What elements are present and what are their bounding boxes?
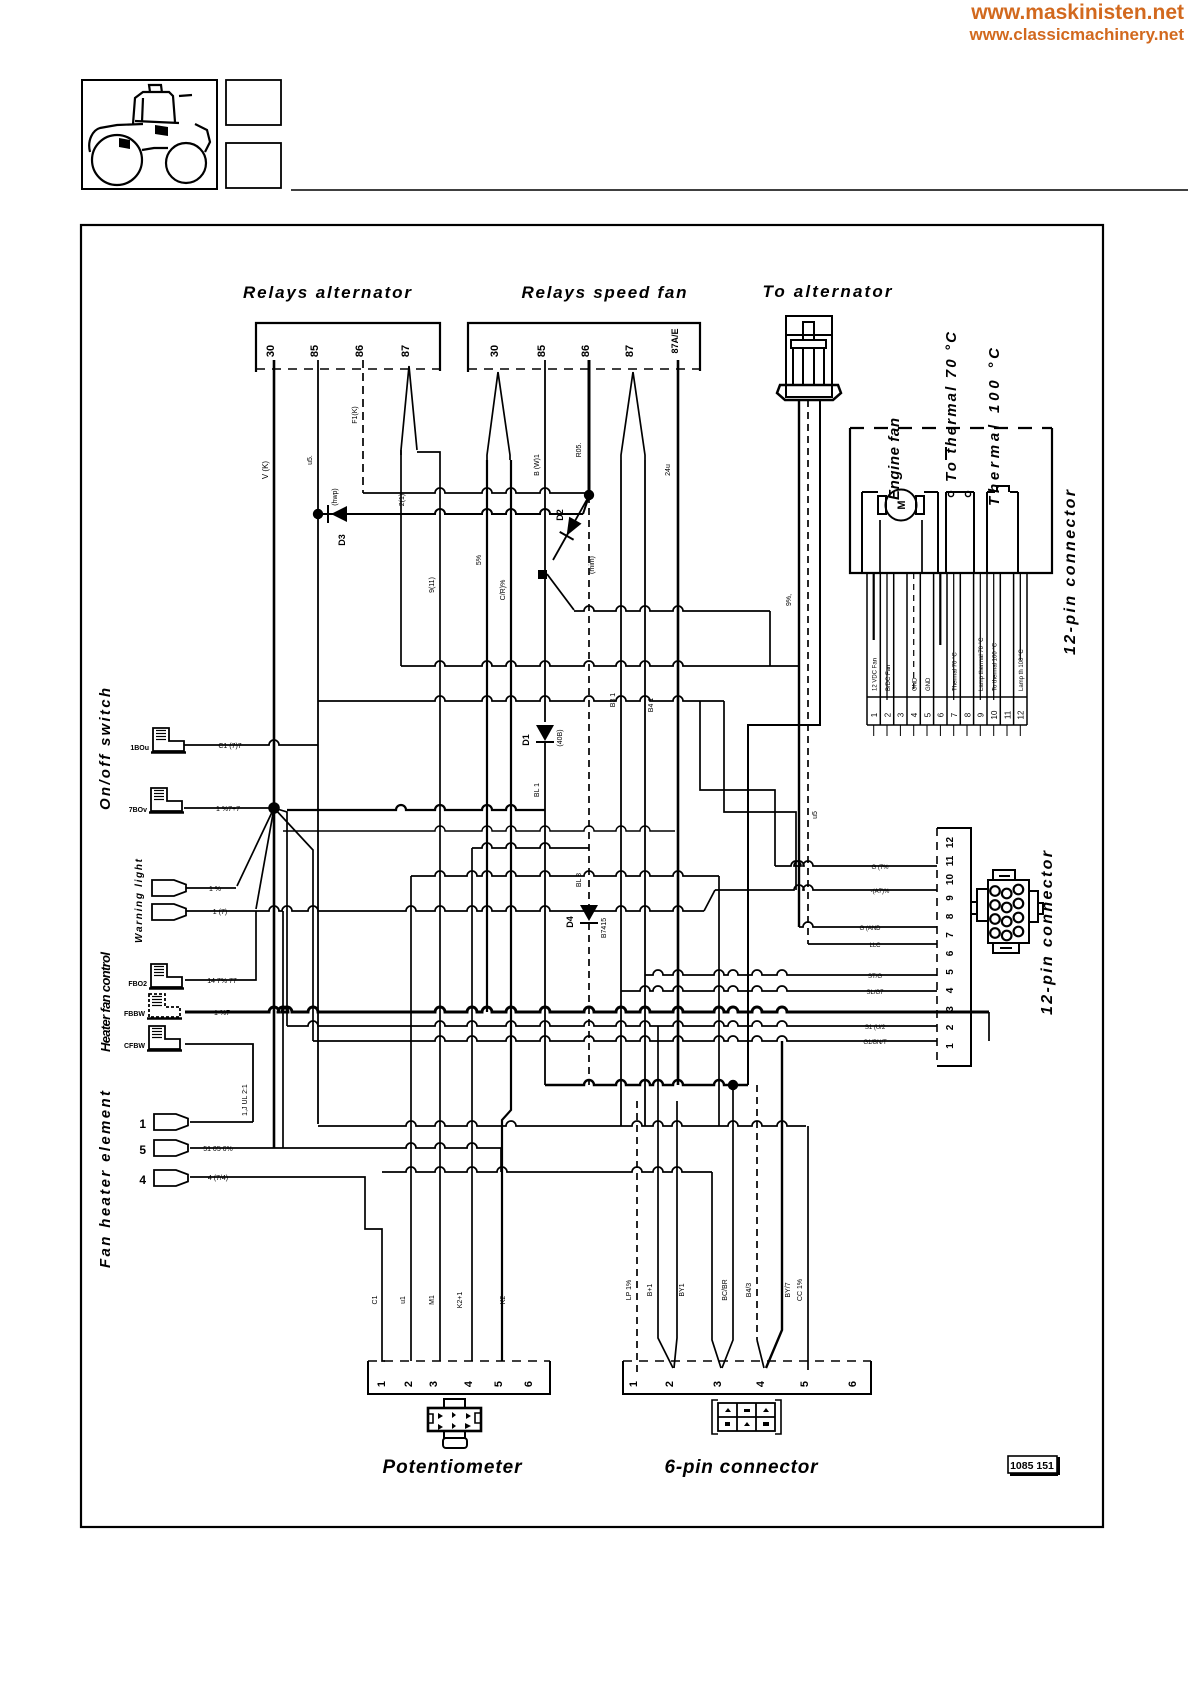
svg-text:BC/BR: BC/BR <box>722 1279 729 1300</box>
svg-text:5: 5 <box>923 712 932 717</box>
svg-text:9: 9 <box>977 712 986 717</box>
svg-text:4: 4 <box>910 712 919 717</box>
svg-text:12 VDC Fan: 12 VDC Fan <box>873 658 879 691</box>
svg-text:C/R)%: C/R)% <box>500 580 507 601</box>
wire H493 <box>363 488 589 493</box>
wire 6pin 2 left <box>658 1026 673 1368</box>
svg-text:G (AND: G (AND <box>860 926 882 932</box>
svg-text:9: 9 <box>945 895 956 901</box>
spade terminal relay K2 pin30 <box>487 372 510 460</box>
svg-text:30: 30 <box>489 345 501 357</box>
spade terminal relay K1 pin87 <box>401 366 417 455</box>
heater fan control contact 2 <box>149 994 180 1017</box>
svg-text:5: 5 <box>945 969 956 975</box>
wire V283 <box>282 911 284 1148</box>
svg-text:S1 (U/2: S1 (U/2 <box>865 1025 886 1031</box>
svg-text:2: 2 <box>945 1024 956 1030</box>
svg-text:51 05 6%: 51 05 6% <box>203 1146 233 1153</box>
svg-text:K2+1: K2+1 <box>457 1292 464 1309</box>
svg-text:7: 7 <box>945 932 956 938</box>
svg-text:6-pin connector: 6-pin connector <box>665 1457 820 1478</box>
svg-text:LP 1%: LP 1% <box>626 1280 633 1301</box>
wire H1041 <box>313 1036 937 1041</box>
node junction D2 <box>538 570 547 579</box>
svg-text:1BOu: 1BOu <box>130 745 149 752</box>
svg-text:G (7%: G (7% <box>871 865 889 871</box>
12-pin connector strip <box>937 828 971 1066</box>
diode D1 <box>536 725 554 741</box>
svg-text:8: 8 <box>963 712 972 717</box>
svg-text:1: 1 <box>376 1381 388 1387</box>
svg-text:1,J UL 2:1: 1,J UL 2:1 <box>242 1084 249 1116</box>
svg-text:(hwp): (hwp) <box>332 488 339 506</box>
svg-text:www.maskinisten.net: www.maskinisten.net <box>970 1 1184 24</box>
svg-text:12: 12 <box>945 837 956 849</box>
svg-text:Thermal 70 °C: Thermal 70 °C <box>952 652 958 691</box>
svg-text:Lamp th 100 °C: Lamp th 100 °C <box>1019 649 1025 691</box>
wire fanout 3 <box>274 808 287 1026</box>
wire H611 <box>574 606 770 611</box>
wire 6pin 3 left <box>712 1172 721 1368</box>
svg-text:D4: D4 <box>565 916 575 928</box>
diode D2 <box>553 496 589 560</box>
svg-text:11: 11 <box>945 855 956 866</box>
svg-text:1 %7: 1 %7 <box>214 1010 230 1017</box>
on/off switch contact 2 <box>151 788 182 811</box>
svg-text:1: 1 <box>945 1043 956 1049</box>
potentiometer icon <box>428 1399 481 1448</box>
svg-text:7: 7 <box>950 712 959 717</box>
on/off switch contact 1 <box>153 728 184 751</box>
wire relay K2 pin30 left <box>486 460 488 1012</box>
svg-text:9(11): 9(11) <box>429 577 436 593</box>
wire fanout 4 <box>274 808 313 1041</box>
wire V700 down <box>700 701 775 866</box>
svg-text:u1: u1 <box>400 1296 407 1304</box>
wire relay K1 pin86 <box>362 360 364 493</box>
svg-text:1085 151: 1085 151 <box>1010 1460 1054 1472</box>
wire D4 tail <box>588 923 590 1085</box>
svg-text:4 (7/4): 4 (7/4) <box>208 1175 228 1182</box>
svg-text:BL 1: BL 1 <box>534 783 541 797</box>
svg-text:30: 30 <box>265 345 277 357</box>
svg-text:12-pin connector: 12-pin connector <box>1062 489 1079 655</box>
svg-text:Relays speed fan: Relays speed fan <box>522 283 687 302</box>
wire fan element 5 / H1148 <box>190 1143 501 1148</box>
fan heater element terminal 5 <box>154 1140 188 1156</box>
wire H1126 <box>318 1121 806 1126</box>
svg-text:D3: D3 <box>337 534 347 546</box>
node junction bus85 <box>313 509 323 519</box>
svg-text:6: 6 <box>937 712 946 717</box>
engine fan motor M <box>886 490 917 521</box>
svg-text:On/off switch: On/off switch <box>97 688 114 810</box>
svg-text:CC 1%: CC 1% <box>797 1279 804 1301</box>
svg-text:FBBW: FBBW <box>124 1011 145 1018</box>
12-pin connector table <box>867 573 1027 725</box>
svg-text:B/DC Fan: B/DC Fan <box>886 665 892 691</box>
wire on/off switch 1 <box>184 740 318 745</box>
wire H1085 junction <box>545 1080 748 1085</box>
warning light terminal 2 <box>152 904 186 920</box>
wire 6pin 4 right thick <box>766 1041 782 1368</box>
wire 6pin 1 dashed <box>636 1101 638 1372</box>
svg-text:GND: GND <box>912 677 918 691</box>
svg-text:B4/3: B4/3 <box>746 1283 753 1298</box>
svg-text:1: 1 <box>870 712 879 717</box>
12-pin connector icon <box>971 870 1043 953</box>
wire relay K2 pin30 right <box>502 460 511 1361</box>
wire 12pin row 10 <box>715 885 937 890</box>
tractor icon box <box>82 80 217 189</box>
engine fan assembly box <box>850 428 1052 573</box>
svg-text:1 (7): 1 (7) <box>213 909 227 916</box>
svg-text:To thermal 100 °C: To thermal 100 °C <box>992 642 998 691</box>
wire H848 potentiometer 4 <box>472 843 589 848</box>
svg-text:ST/G: ST/G <box>868 974 882 980</box>
svg-text:9%,: 9%, <box>786 594 793 606</box>
thermal 100 connector <box>987 486 1018 573</box>
wire H876 potentiometer 2 <box>411 871 719 876</box>
wire V989 <box>988 1012 990 1041</box>
wire 6pin 4 left dashed <box>756 1085 758 1340</box>
svg-text:M: M <box>896 500 908 509</box>
wire 6pin 2 right <box>674 1101 677 1368</box>
svg-text:86: 86 <box>580 345 592 357</box>
svg-text:u5.: u5. <box>307 455 314 465</box>
spade terminal relay K2 pin87 <box>621 372 645 460</box>
wire heater control 1 <box>185 911 256 980</box>
wire alternator 3 <box>748 400 820 1085</box>
wire on/off switch 2 <box>184 807 270 809</box>
svg-text:3: 3 <box>428 1381 440 1387</box>
svg-text:-(A7)%: -(A7)% <box>871 889 890 895</box>
potentiometer box <box>368 1361 550 1394</box>
figure number box 1085 151 <box>1008 1456 1057 1473</box>
wire alternator 1 <box>798 400 800 927</box>
diagram border frame <box>81 225 1103 1527</box>
svg-text:1 %7+7: 1 %7+7 <box>216 806 240 813</box>
wire V770 <box>769 611 771 666</box>
wire V719 <box>718 876 720 1126</box>
wire fanout 1 <box>237 808 274 886</box>
svg-text:4: 4 <box>139 1173 146 1187</box>
wire 6pin 5 <box>807 1126 809 1370</box>
wire V704 jog <box>704 890 715 911</box>
svg-text:Potentiometer: Potentiometer <box>383 1457 524 1478</box>
svg-text:2: 2 <box>403 1381 415 1387</box>
svg-text:5: 5 <box>493 1381 505 1387</box>
svg-text:M1: M1 <box>429 1295 436 1305</box>
wire H701 <box>318 696 724 701</box>
fan heater element terminal 1 <box>154 1114 188 1130</box>
svg-text:V (K): V (K) <box>261 461 270 480</box>
svg-text:3: 3 <box>712 1381 724 1387</box>
svg-text:3: 3 <box>897 712 906 717</box>
svg-text:12: 12 <box>1017 710 1026 719</box>
svg-text:6: 6 <box>847 1381 859 1387</box>
svg-text:D1: D1 <box>521 734 531 746</box>
wire 12pin row 4 <box>621 986 937 991</box>
svg-text:F1(K): F1(K) <box>352 406 359 424</box>
wire D1 to junction <box>544 742 546 1085</box>
wire 12pin row 5 <box>645 970 937 975</box>
svg-text:(40B): (40B) <box>557 729 564 746</box>
svg-text:B (W)1: B (W)1 <box>534 454 541 476</box>
svg-text:1: 1 <box>628 1381 640 1387</box>
svg-text:14 7% 77: 14 7% 77 <box>207 978 237 985</box>
header rule <box>291 189 1188 191</box>
wire 86 lower dashed <box>588 496 590 905</box>
wire heater control 3 <box>185 1044 253 1122</box>
svg-text:u5: u5 <box>812 811 819 819</box>
svg-text:BY1: BY1 <box>679 1283 686 1296</box>
wire warning light 1 <box>186 887 236 889</box>
svg-text:K2: K2 <box>500 1296 507 1305</box>
wire relay K1 pin30 bus <box>273 360 276 1148</box>
wire relay K2 pin87 right <box>644 460 646 1126</box>
wire 6pin 3 right <box>722 1085 733 1368</box>
svg-text:B+1: B+1 <box>647 1284 654 1297</box>
wire H831 <box>283 826 675 831</box>
6-pin connector icon <box>712 1400 781 1434</box>
wire V724 down <box>724 701 796 890</box>
svg-text:4: 4 <box>945 987 956 993</box>
svg-text:10: 10 <box>945 874 956 886</box>
svg-text:6: 6 <box>945 950 956 956</box>
header small box 2 <box>226 143 281 188</box>
svg-text:5%: 5% <box>476 555 483 565</box>
svg-text:1 %: 1 % <box>209 886 221 893</box>
svg-text:1: 1 <box>139 1117 146 1131</box>
svg-text:87A/E: 87A/E <box>670 328 680 353</box>
wire D2 to H611 <box>547 574 574 610</box>
node junction on/off bus <box>268 802 280 814</box>
svg-text:CFBW: CFBW <box>124 1043 145 1050</box>
svg-text:LLC: LLC <box>869 943 881 949</box>
svg-text:www.classicmachinery.net: www.classicmachinery.net <box>969 25 1185 44</box>
svg-text:5: 5 <box>139 1143 146 1157</box>
svg-text:2(1): 2(1) <box>399 494 406 506</box>
wire H666 <box>401 661 799 666</box>
svg-text:BL 3: BL 3 <box>576 873 583 887</box>
svg-text:To alternator: To alternator <box>763 282 893 301</box>
6-pin connector box <box>623 1361 871 1394</box>
heater fan control contact 1 <box>151 964 182 987</box>
diode D4 <box>580 905 598 921</box>
wire relay K1 pin87 left <box>400 450 402 666</box>
svg-text:4: 4 <box>463 1380 475 1387</box>
svg-text:Relays alternator: Relays alternator <box>243 283 412 302</box>
svg-text:SL/G7: SL/G7 <box>866 990 884 996</box>
wire V501 jog <box>500 1148 502 1172</box>
wire fanout 2 <box>256 808 274 909</box>
svg-text:8: 8 <box>945 913 956 919</box>
heater fan control contact 3 <box>149 1026 180 1049</box>
svg-text:4: 4 <box>755 1380 767 1387</box>
svg-text:11: 11 <box>1003 710 1012 719</box>
svg-text:GND: GND <box>926 677 932 691</box>
node junction H1085 <box>728 1080 738 1090</box>
relay K1 Relays alternator box <box>256 323 440 372</box>
wire relay K2 pin87A/E <box>677 360 680 1085</box>
svg-text:87: 87 <box>624 345 636 357</box>
svg-text:2: 2 <box>883 712 892 717</box>
svg-text:R05.: R05. <box>576 443 583 458</box>
wire heater control 2 thick <box>185 1007 989 1012</box>
svg-text:6: 6 <box>523 1381 535 1387</box>
svg-text:BY/7: BY/7 <box>785 1282 792 1297</box>
wire 12pin row 11 <box>775 861 937 866</box>
svg-text:24u: 24u <box>665 464 672 476</box>
svg-text:Engine fan: Engine fan <box>886 418 903 500</box>
svg-text:C1: C1 <box>372 1295 379 1304</box>
thermal 70 connector <box>946 492 974 573</box>
tractor outline <box>89 85 210 185</box>
wire H1172 <box>382 1167 712 1172</box>
wire H1026 <box>287 1021 937 1026</box>
wire relay K2 pin85 <box>544 360 546 722</box>
svg-text:B7415: B7415 <box>601 918 608 938</box>
svg-text:86: 86 <box>354 345 366 357</box>
wire alternator 2 dashed <box>807 400 809 944</box>
svg-text:87: 87 <box>400 345 412 357</box>
svg-text:2: 2 <box>664 1381 676 1387</box>
wire 12pin row 7 <box>808 943 937 945</box>
svg-text:85: 85 <box>536 345 548 357</box>
svg-text:10: 10 <box>990 710 999 719</box>
svg-text:7BOv: 7BOv <box>129 807 147 814</box>
svg-text:G1/BN/T: G1/BN/T <box>863 1040 887 1046</box>
fan heater element terminal 4 <box>154 1170 188 1186</box>
warning light terminal 1 <box>152 880 186 896</box>
relay K2 Relays speed fan box <box>468 323 700 372</box>
svg-text:Heater fan control: Heater fan control <box>98 952 113 1052</box>
svg-text:85: 85 <box>309 345 321 357</box>
wire H810 <box>287 805 545 810</box>
svg-text:(mim): (mim) <box>589 556 596 574</box>
wire warning light 2 / H911 <box>186 906 704 911</box>
alternator connector icon <box>786 316 832 397</box>
svg-text:5: 5 <box>799 1381 811 1387</box>
wire relay K1 pin85 <box>317 360 319 1124</box>
wire fan element 4 <box>190 1177 385 1361</box>
diode D3 <box>318 509 583 514</box>
wire relay K1 pin87 right jog <box>417 452 440 1361</box>
svg-text:12-pin connector: 12-pin connector <box>1039 850 1056 1015</box>
node junction 86 <box>584 490 594 500</box>
svg-text:C1 (7)7: C1 (7)7 <box>218 743 241 750</box>
wire relay K2 pin86 <box>588 360 591 494</box>
wire relay K2 pin87 left <box>620 460 622 1126</box>
svg-text:FBO2: FBO2 <box>128 981 147 988</box>
svg-text:Lamp thermal 70 °C: Lamp thermal 70 °C <box>979 637 985 691</box>
header small box 1 <box>226 80 281 125</box>
wire fan element 1 <box>190 1121 253 1123</box>
